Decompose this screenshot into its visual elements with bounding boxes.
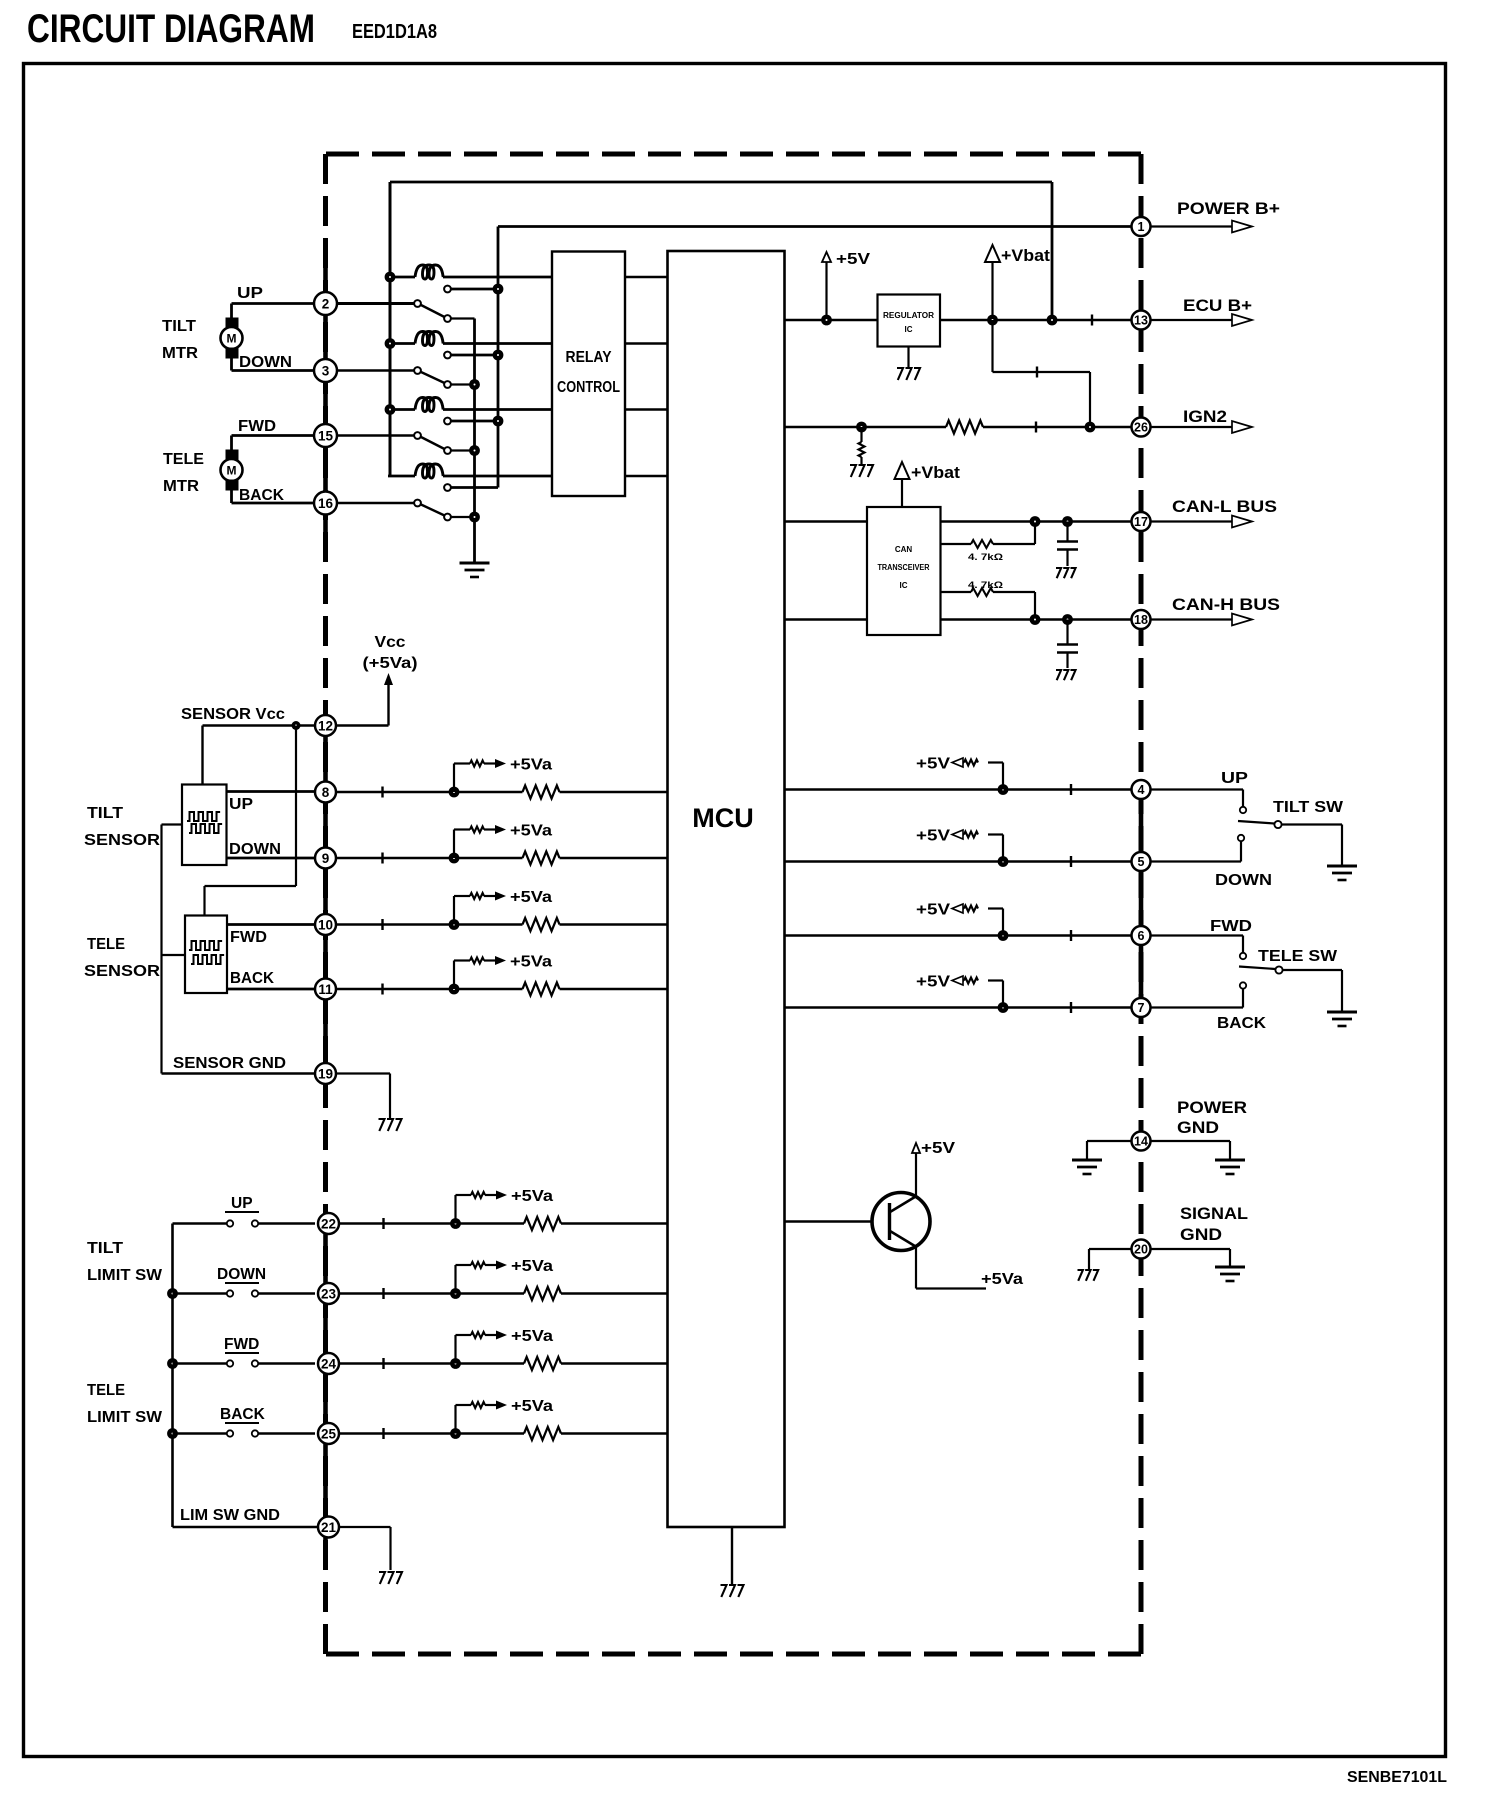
svg-text:+5Va: +5Va: [981, 1271, 1023, 1288]
tele switch wiring pin6: [1151, 934, 1244, 936]
svg-text:+5V: +5V: [921, 1140, 955, 1157]
junction limit rail row 25: [167, 1428, 178, 1439]
svg-text:+5Va: +5Va: [510, 889, 552, 906]
svg-text:M: M: [227, 332, 237, 346]
svg-text:MTR: MTR: [163, 478, 199, 495]
svg-text:MCU: MCU: [692, 803, 754, 833]
tilt switch wiring pin4: [1151, 788, 1244, 790]
svg-text:FWD: FWD: [230, 929, 267, 946]
pin 20 wiring left: [1089, 1248, 1132, 1250]
wire relay coil supply vertical: [389, 182, 392, 476]
svg-text:9: 9: [322, 851, 330, 866]
relay K3 NC contact: [444, 447, 451, 454]
wire Vcc branch to tele sensor: [295, 726, 297, 887]
wire pin 19 to ground: [336, 1072, 390, 1074]
wire pin 22 to MCU: [336, 1222, 524, 1224]
tick on pin 7 wire: [1070, 1002, 1072, 1013]
junction +5V pull-up pin 6: [998, 930, 1009, 941]
svg-text:POWER: POWER: [1177, 1099, 1247, 1117]
junction relay K3 NC to ground bus: [469, 445, 480, 456]
pin 14: [1132, 1132, 1151, 1151]
wire pin 24 to MCU: [336, 1362, 524, 1364]
svg-text:DOWN: DOWN: [1215, 872, 1272, 889]
+5Va pull-up pin 10: [453, 896, 455, 925]
junction sensor Vcc branch: [292, 721, 301, 730]
svg-text:13: 13: [1134, 314, 1148, 328]
svg-text:DOWN: DOWN: [217, 1266, 266, 1283]
svg-text:IGN2: IGN2: [1183, 408, 1227, 426]
junction pull-up pin 11: [449, 984, 460, 995]
tele sensor box: [185, 916, 227, 994]
+5V pull-up pin 6: [1002, 909, 1004, 936]
svg-text:FWD: FWD: [1210, 918, 1252, 935]
svg-text:TELE SW: TELE SW: [1258, 948, 1338, 965]
junction relay K2 NC to ground bus: [469, 379, 480, 390]
wire pin 11 to MCU: [336, 988, 523, 991]
wire sensor gnd to pin 19: [162, 1072, 316, 1075]
tick on pin 24 wire: [382, 1358, 384, 1369]
relay K4 NC contact: [444, 514, 451, 521]
+5V pull-up pin 4: [1002, 763, 1004, 790]
svg-text:(+5Va): (+5Va): [363, 655, 418, 672]
wire pin16 to relay4 common: [336, 502, 414, 505]
pin 20 wiring right: [1151, 1248, 1231, 1250]
svg-text:1: 1: [1138, 220, 1145, 234]
tick on ECU B+ wire: [1091, 315, 1093, 326]
resistor R pin 23: [524, 1287, 561, 1300]
junction IGN2 pulldown: [856, 422, 867, 433]
relay K2 NO contact: [444, 352, 451, 359]
+5Va pull-up pin 25: [454, 1405, 456, 1434]
wire relay NC common vertical to ground: [473, 319, 476, 564]
junction CAN-H resistor: [1030, 614, 1041, 625]
svg-text:TELE: TELE: [163, 451, 204, 468]
resistor R pin 11: [523, 983, 560, 996]
pin 12: [315, 715, 336, 736]
resistor R pin 25: [524, 1427, 561, 1440]
wire tele motor BACK to pin 16: [230, 491, 233, 504]
pin 14 wiring right: [1151, 1140, 1231, 1142]
tick on pin 10 wire: [381, 919, 383, 930]
junction CAN-H capacitor: [1062, 614, 1073, 625]
relay K1 NC contact: [444, 315, 451, 322]
resistor R pin 22: [524, 1217, 561, 1230]
svg-text:TELE: TELE: [87, 1382, 125, 1399]
svg-text:MTR: MTR: [162, 345, 198, 362]
svg-text:+5Va: +5Va: [511, 1328, 553, 1345]
wire tilt sensor UP to pin 8: [227, 790, 316, 793]
wire relay NO bus vertical: [497, 227, 500, 488]
pin 19: [315, 1063, 336, 1084]
pin 20: [1132, 1240, 1151, 1259]
junction +5V on ECU B+ line: [821, 315, 832, 326]
junction CAN-L capacitor: [1062, 516, 1073, 527]
transistor emitter wire to +5Va: [915, 1247, 917, 1289]
wire coil supply to ECU B+ node (top horizontal): [390, 181, 1052, 184]
svg-text:TILT: TILT: [87, 805, 124, 822]
svg-text:GND: GND: [1177, 1119, 1219, 1137]
svg-text:+5V: +5V: [916, 902, 950, 919]
svg-text:+5V: +5V: [836, 251, 870, 268]
tilt switch wiring pin5: [1151, 860, 1242, 862]
svg-text:25: 25: [321, 1426, 337, 1441]
junction +5V pull-up pin 5: [998, 856, 1009, 867]
+5V supply symbol at regulator: [822, 252, 831, 262]
svg-text:CIRCUIT DIAGRAM: CIRCUIT DIAGRAM: [27, 7, 315, 51]
svg-text:26: 26: [1134, 421, 1148, 435]
ground C1: [1056, 568, 1061, 578]
resistor R pin 9: [523, 852, 560, 865]
limit switch contacts row 22: [173, 1222, 227, 1224]
ground pin20 right: [1215, 1266, 1245, 1269]
+Vbat supply at ECU B+: [985, 245, 1000, 262]
svg-text:20: 20: [1134, 1243, 1148, 1257]
tele motor M2: [226, 450, 239, 461]
pin 22: [318, 1213, 339, 1234]
underline BACK: [225, 1422, 259, 1424]
pin 21: [318, 1517, 339, 1538]
pin 16: [314, 492, 337, 515]
junction pull-up pin 22: [450, 1218, 461, 1229]
wire NO bus to POWER B+ (pin 1): [498, 225, 1131, 228]
junction pull-up pin 25: [450, 1428, 461, 1439]
junction +5V pull-up pin 7: [998, 1002, 1009, 1013]
wire relay-control to MCU row 4: [625, 475, 668, 478]
tick on pin 9 wire: [381, 853, 383, 864]
svg-text:TILT: TILT: [87, 1240, 124, 1257]
svg-text:BACK: BACK: [230, 970, 275, 987]
svg-text:18: 18: [1134, 613, 1148, 627]
svg-text:14: 14: [1134, 1135, 1148, 1149]
junction pull-up pin 8: [449, 787, 460, 798]
+5V pull-up pin 5: [1002, 835, 1004, 862]
svg-text:BACK: BACK: [1217, 1015, 1267, 1032]
junction pull-up pin 23: [450, 1288, 461, 1299]
svg-text:FWD: FWD: [238, 418, 276, 435]
svg-text:TRANSCEIVER: TRANSCEIVER: [878, 563, 930, 572]
svg-text:19: 19: [318, 1066, 333, 1081]
CAN-H terminating resistor 4.7k: [941, 591, 972, 593]
wire pin 21 to ground: [339, 1526, 391, 1528]
svg-text:SENSOR GND: SENSOR GND: [173, 1055, 286, 1072]
svg-text:TILT SW: TILT SW: [1273, 799, 1344, 816]
svg-text:TILT: TILT: [162, 318, 196, 335]
+5Va pull-up pin 9: [453, 830, 455, 859]
svg-text:17: 17: [1134, 515, 1148, 529]
wire tele sensor FWD to pin 10: [227, 923, 315, 926]
pin 14 wiring left: [1087, 1140, 1132, 1142]
svg-text:4: 4: [1138, 783, 1145, 797]
ground tele switch: [1327, 1011, 1357, 1014]
MCU U1 box: [668, 251, 785, 1527]
junction limit rail row 23: [167, 1288, 178, 1299]
svg-text:SENSOR: SENSOR: [84, 963, 160, 980]
underline FWD: [225, 1352, 259, 1354]
capacitor C2 on CAN-H: [1066, 620, 1068, 645]
svg-text:FWD: FWD: [224, 1336, 259, 1353]
junction relay K4 NC to ground bus: [469, 512, 480, 523]
svg-text:CAN-L BUS: CAN-L BUS: [1172, 498, 1277, 516]
relay K2 NC contact: [444, 381, 451, 388]
svg-text:BACK: BACK: [239, 487, 285, 504]
tele sensor pulse waveform: [189, 941, 222, 950]
resistor R on IGN2 line: [946, 421, 983, 434]
wire relay-control to MCU row 3: [625, 408, 668, 411]
junction relay K1 coil supply: [385, 272, 396, 283]
svg-text:23: 23: [321, 1286, 337, 1301]
svg-text:16: 16: [318, 496, 334, 511]
wire pin 10 to MCU: [336, 923, 523, 926]
pin 8: [315, 782, 336, 803]
svg-text:2: 2: [322, 296, 330, 311]
+5V pull-up pin 7: [1002, 981, 1004, 1008]
svg-text:12: 12: [318, 718, 333, 733]
pin 1 POWER B+: [1132, 217, 1151, 236]
svg-text:SIGNAL: SIGNAL: [1180, 1205, 1248, 1223]
svg-text:LIMIT SW: LIMIT SW: [87, 1409, 162, 1426]
regulator IC box: [878, 295, 941, 347]
junction top feed on ECU B+ line: [1047, 315, 1058, 326]
boundary solid overdraw (pin column segments): [323, 262, 328, 556]
wire MCU to transistor base: [785, 1220, 889, 1223]
svg-text:M: M: [227, 464, 237, 478]
svg-text:IC: IC: [905, 325, 913, 334]
svg-text:CAN: CAN: [895, 545, 913, 554]
wire relay-control to MCU row 2: [625, 342, 668, 345]
wire sensor Vcc to pin 12: [203, 724, 316, 727]
wire pin 25 to MCU: [336, 1432, 524, 1434]
+5Va pull-up pin 23: [454, 1265, 456, 1294]
junction relay K3 NO bus: [493, 416, 504, 427]
pin 2: [314, 292, 337, 315]
pin 9: [315, 848, 336, 869]
svg-text:+5Va: +5Va: [511, 1258, 553, 1275]
arrow CAN-L output: [1151, 520, 1233, 522]
junction CAN-L resistor: [1030, 516, 1041, 527]
svg-text:+5Va: +5Va: [510, 757, 552, 774]
tele switch common and arm: [1275, 966, 1282, 973]
svg-text:7: 7: [1138, 1001, 1145, 1015]
wire pin2 to relay1 common: [336, 302, 414, 305]
pin 10: [315, 914, 336, 935]
limit switch contacts row 25: [173, 1432, 227, 1434]
pin 6: [1132, 926, 1151, 945]
sensor ground rail: [162, 823, 183, 825]
CAN-L terminating resistor 4.7k: [941, 543, 972, 545]
limit switch ground rail: [171, 1224, 174, 1528]
svg-text:POWER B+: POWER B+: [1177, 200, 1280, 218]
svg-text:LIM SW GND: LIM SW GND: [180, 1507, 280, 1524]
junction relay K1 NO bus: [493, 284, 504, 295]
tick on pin 22 wire: [382, 1218, 384, 1229]
svg-text:REGULATOR: REGULATOR: [883, 311, 934, 320]
svg-text:CONTROL: CONTROL: [557, 379, 620, 396]
tilt switch common and arm: [1274, 821, 1281, 828]
relay K3 NO contact: [444, 418, 451, 425]
tilt sensor pulse waveform: [187, 812, 220, 821]
pin 15: [314, 424, 337, 447]
tick on pin 8 wire: [381, 787, 383, 798]
arrow ECU B+ output: [1151, 319, 1233, 321]
ground pin20 left (777): [1078, 1270, 1083, 1281]
pin 24: [318, 1353, 339, 1374]
tilt motor M1: [226, 318, 239, 329]
ECU dashed boundary box: [326, 154, 1144, 1654]
svg-text:LIMIT SW: LIMIT SW: [87, 1267, 162, 1284]
relay K2 common contact and arm: [414, 367, 421, 374]
tick on pin 5 wire: [1070, 856, 1072, 867]
wire tele motor FWD to pin 15: [232, 434, 316, 437]
svg-text:+5V: +5V: [916, 756, 950, 773]
svg-text:+Vbat: +Vbat: [1001, 246, 1050, 265]
resistor R pin 8: [523, 786, 560, 799]
wire pin 8 to MCU: [336, 791, 523, 794]
wire tilt motor UP to pin 2: [232, 302, 316, 305]
+5Va pull-up pin 22: [454, 1195, 456, 1224]
junction pull-up pin 9: [449, 853, 460, 864]
relay K1 NO contact: [444, 286, 451, 293]
transistor Q1: [872, 1193, 930, 1251]
tick on +Vbat branch: [1036, 367, 1038, 378]
svg-text:+5Va: +5Va: [511, 1398, 553, 1415]
junction IGN2 +Vbat feed: [1085, 422, 1096, 433]
svg-text:6: 6: [1138, 929, 1145, 943]
wire pin 23 to MCU: [336, 1292, 524, 1294]
wire +Vbat branch to IGN2: [991, 320, 993, 372]
tick on pin 11 wire: [381, 984, 383, 995]
svg-text:8: 8: [322, 785, 330, 800]
relay K4 common contact and arm: [414, 500, 421, 507]
wire tilt motor DOWN to pin 3: [230, 358, 233, 371]
svg-text:+5V: +5V: [916, 828, 950, 845]
relay K4 NO contact: [444, 484, 451, 491]
svg-text:+5Va: +5Va: [510, 954, 552, 971]
relay K2 coil: [388, 342, 415, 345]
wire MCU to pin 5: [785, 860, 1132, 863]
svg-text:+5V: +5V: [916, 974, 950, 991]
svg-text:UP: UP: [237, 285, 263, 302]
junction pull-up pin 24: [450, 1358, 461, 1369]
pin 26 IGN2: [1132, 418, 1151, 437]
svg-text:11: 11: [318, 982, 333, 997]
wire tele sensor BACK to pin 11: [227, 988, 315, 991]
svg-text:EED1D1A8: EED1D1A8: [352, 21, 437, 43]
limit switch contacts row 23: [173, 1292, 227, 1294]
svg-text:+5Va: +5Va: [511, 1188, 553, 1205]
wire MCU to pin 6: [785, 934, 1132, 937]
wire pin15 to relay3 common: [336, 434, 414, 437]
wire rail to pin 21: [173, 1526, 319, 1528]
svg-text:CAN-H BUS: CAN-H BUS: [1172, 596, 1280, 614]
svg-text:DOWN: DOWN: [229, 841, 281, 858]
tick on pin 4 wire: [1070, 784, 1072, 795]
relay control box: [552, 252, 625, 497]
tick on IGN2 wire: [1035, 422, 1037, 433]
tick on pin 6 wire: [1070, 930, 1072, 941]
svg-text:21: 21: [321, 1520, 337, 1535]
pin 23: [318, 1283, 339, 1304]
junction limit rail row 24: [167, 1358, 178, 1369]
tick on pin 25 wire: [382, 1428, 384, 1439]
underline DOWN: [225, 1282, 259, 1284]
pin 17 CAN-L: [1132, 512, 1151, 531]
pin 7: [1132, 998, 1151, 1017]
pin 25: [318, 1423, 339, 1444]
svg-text:SENSOR Vcc: SENSOR Vcc: [181, 706, 285, 723]
svg-text:4. 7kΩ: 4. 7kΩ: [968, 580, 1003, 591]
svg-text:+Vbat: +Vbat: [911, 463, 960, 482]
svg-text:TELE: TELE: [87, 936, 125, 953]
CAN transceiver IC box: [867, 507, 941, 635]
+5Va pull-up pin 11: [453, 961, 455, 990]
pin 4: [1132, 780, 1151, 799]
wire relay-control to MCU row 1: [625, 276, 668, 279]
svg-text:GND: GND: [1180, 1226, 1222, 1244]
svg-text:4. 7kΩ: 4. 7kΩ: [968, 552, 1003, 563]
relay K4 coil: [388, 475, 415, 478]
svg-text:UP: UP: [1221, 770, 1248, 787]
regulator ground: [907, 347, 909, 368]
relay K1 coil: [388, 276, 415, 279]
ground relay switches: [460, 562, 490, 565]
junction relay K2 coil supply: [385, 338, 396, 349]
ground IGN2 pulldown: [860, 457, 862, 464]
svg-text:24: 24: [321, 1356, 337, 1371]
wire MCU to CAN-H: [785, 618, 868, 620]
wire pin 9 to MCU: [336, 857, 523, 860]
+Vbat supply at CAN: [895, 462, 910, 479]
wire MCU to pin 4: [785, 788, 1132, 791]
tilt sensor box: [182, 785, 227, 866]
MCU ground stem wire: [731, 1527, 733, 1584]
pin 13 ECU B+: [1132, 311, 1151, 330]
relay K3 coil: [388, 408, 415, 411]
ground C2: [1056, 670, 1061, 680]
svg-text:SENSOR: SENSOR: [84, 832, 160, 849]
wire MCU to IGN2 (pin 26): [785, 426, 947, 428]
wire CAN-L to pin 17: [941, 520, 1131, 523]
svg-text:ECU B+: ECU B+: [1183, 297, 1252, 315]
ground pin14 right: [1215, 1159, 1245, 1162]
svg-text:UP: UP: [231, 1195, 253, 1212]
svg-text:RELAY: RELAY: [566, 349, 613, 366]
svg-text:DOWN: DOWN: [239, 354, 292, 371]
svg-text:SENBE7101L: SENBE7101L: [1347, 1769, 1447, 1786]
Vcc (+5Va) arrow at pin 12: [336, 724, 389, 726]
svg-text:3: 3: [322, 363, 330, 378]
pin 11: [315, 979, 336, 1000]
pin 5: [1132, 852, 1151, 871]
svg-text:+5Va: +5Va: [510, 823, 552, 840]
svg-text:15: 15: [318, 428, 334, 443]
svg-text:5: 5: [1138, 855, 1145, 869]
resistor R pin 10: [523, 918, 560, 931]
svg-text:UP: UP: [229, 796, 253, 813]
ground pin 19: [379, 1119, 385, 1131]
arrow IGN2 output: [1151, 426, 1233, 428]
+5Va pull-up pin 24: [454, 1335, 456, 1364]
pin 3: [314, 359, 337, 382]
relay K3 common contact and arm: [414, 432, 421, 439]
ground tilt switch: [1327, 865, 1357, 868]
limit switch contacts row 24: [173, 1362, 227, 1364]
ground pin14 left: [1072, 1159, 1102, 1162]
MCU ground symbol: [721, 1585, 727, 1597]
capacitor C1 on CAN-L: [1066, 522, 1068, 542]
svg-text:IC: IC: [900, 581, 908, 590]
svg-text:10: 10: [318, 917, 333, 932]
junction +5V pull-up pin 4: [998, 784, 1009, 795]
